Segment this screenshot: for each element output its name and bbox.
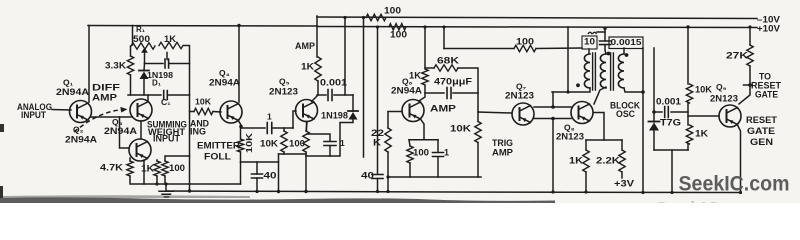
- wire 1K top lead: [156, 160, 158, 161]
- wire long vertical x643: [642, 48, 644, 193]
- svg-text:RESET: RESET: [746, 115, 777, 126]
- wire 10 box to 0015: [597, 29, 605, 33]
- resistor 22K: [387, 112, 389, 128]
- capacitor (R1 network): [145, 63, 164, 65]
- svg-text:68K: 68K: [437, 56, 460, 66]
- transistor Q2 (lower middle): [129, 139, 151, 161]
- wire Q2 emitter stem: [143, 160, 145, 184]
- wire Q7 base: [478, 112, 512, 113]
- svg-text:2N123: 2N123: [269, 86, 298, 96]
- transformer coil right: [623, 48, 625, 54]
- svg-text:10K: 10K: [195, 97, 212, 107]
- wire left bottom bus: [130, 176, 241, 184]
- wire Q8 right network: [594, 113, 605, 141]
- wire analog input: [52, 109, 71, 112]
- svg-text:2N123: 2N123: [710, 93, 738, 103]
- svg-text:100: 100: [289, 138, 305, 148]
- wire rail riser at x=317: [316, 16, 318, 57]
- capacitor C1: [128, 94, 161, 96]
- svg-text:0.0015: 0.0015: [611, 38, 643, 47]
- capacitor 10 with box: [582, 36, 597, 49]
- wire coil left top lead: [588, 49, 590, 54]
- wire top rail (-10V): [317, 17, 757, 19]
- resistor 100 (top rail 1): [366, 14, 386, 20]
- svg-text:AMP: AMP: [92, 92, 118, 103]
- wire vertical x654 top: [653, 48, 655, 112]
- wire Q5 collector slant: [312, 96, 318, 102]
- svg-text:1N198: 1N198: [321, 110, 348, 120]
- wire 100 top lead to feedback line: [165, 156, 190, 161]
- svg-text:100: 100: [390, 29, 407, 39]
- svg-text:1: 1: [340, 138, 345, 148]
- wire Q5 emitter: [306, 122, 308, 132]
- transistor Q8: [571, 102, 593, 124]
- resistor R1 500: [131, 43, 155, 49]
- wire bottom rail: [166, 191, 741, 193]
- resistor 10K (Q4 base): [194, 108, 213, 114]
- wire coil right bottom: [624, 88, 643, 92]
- wire Q6 base: [388, 111, 402, 113]
- resistor 1K (reset): [686, 125, 692, 144]
- ground: [165, 184, 167, 191]
- svg-text:4.7K: 4.7K: [100, 162, 123, 173]
- svg-text:SeekIC.com: SeekIC.com: [679, 172, 790, 196]
- svg-text:2N94A: 2N94A: [65, 135, 98, 145]
- wire rail riser to R1: [132, 26, 134, 46]
- svg-text:+3V: +3V: [614, 179, 634, 189]
- resistor 10K-A (Q4 emitter): [240, 128, 242, 139]
- resistor 3.3K: [127, 56, 133, 75]
- svg-text:2N123: 2N123: [556, 131, 584, 141]
- capacitor 0.001 (Q5): [317, 94, 326, 96]
- wire feedback right side: [184, 46, 190, 192]
- wire Q6 emitter: [421, 119, 425, 140]
- capacitor 1 (Q4 emitter): [241, 127, 265, 129]
- wire long vertical x345: [344, 18, 346, 96]
- wire Q4 emitter node: [238, 120, 241, 128]
- resistor 68K: [425, 67, 434, 69]
- svg-text:40: 40: [361, 171, 374, 181]
- svg-text:1K: 1K: [569, 156, 584, 166]
- resistor 1K (left): [154, 161, 160, 176]
- transistor Q1: [70, 101, 92, 123]
- svg-text:GEN: GEN: [750, 137, 773, 148]
- wire reset gate tick: [744, 84, 751, 86]
- svg-text:GATE: GATE: [747, 126, 775, 137]
- svg-text:Q₅: Q₅: [279, 77, 290, 87]
- wire 3.3K riser: [130, 46, 132, 56]
- svg-text:1K: 1K: [164, 34, 177, 44]
- resistor 2.2K: [621, 140, 623, 150]
- svg-text:10: 10: [584, 36, 595, 46]
- svg-text:FOLL: FOLL: [204, 152, 232, 162]
- wire 4.7K top lead: [129, 158, 131, 161]
- capacitor 0.001 (reset): [654, 111, 662, 113]
- wire Q5 base riser: [293, 111, 296, 128]
- capacitor 0.0015: [600, 41, 611, 45]
- transistor Q6: [402, 100, 424, 122]
- capacitor 1 (Q6 emitter): [409, 139, 438, 141]
- capacitor 470uuF: [425, 92, 444, 94]
- wire 27K to Q9 collector: [739, 66, 750, 104]
- svg-text:AMP: AMP: [430, 103, 457, 114]
- wire long vertical x377: [377, 27, 379, 174]
- wire 100-C drop: [305, 154, 307, 192]
- wire 3.3K bottom lead: [130, 75, 132, 95]
- wire Q3 emitter to lower transistor: [140, 121, 142, 139]
- svg-text:1K: 1K: [141, 163, 154, 174]
- wire center drop x553: [552, 92, 554, 107]
- transformer coil left: [584, 54, 590, 88]
- wire Q7-Q8 upper link: [534, 106, 571, 108]
- svg-text:0.001: 0.001: [656, 97, 681, 107]
- svg-text:D₁: D₁: [152, 79, 162, 88]
- wire tap down to lower transistor base: [120, 117, 130, 148]
- svg-text:R₁: R₁: [136, 25, 146, 34]
- svg-text:27K: 27K: [726, 51, 749, 61]
- wire left coil bottom link: [552, 88, 590, 92]
- transistor Q3 (upper middle): [130, 99, 152, 121]
- wire bottom link y150: [654, 149, 688, 151]
- wire Q1 collector: [88, 26, 90, 103]
- resistor 100 (Q6 emitter): [409, 140, 410, 146]
- svg-text:0.001: 0.001: [320, 77, 347, 87]
- wire long vertical x363: [363, 18, 365, 158]
- svg-text:1: 1: [267, 112, 272, 122]
- capacitor 1 (Q5 emitter): [307, 134, 330, 141]
- wire y177 bus: [388, 176, 481, 178]
- wire Q7-Q8 lower link: [534, 118, 571, 120]
- diode D1 1N198: [143, 64, 146, 71]
- svg-text:+10V: +10V: [757, 24, 780, 34]
- resistor 1K (Q5 collector): [315, 57, 321, 81]
- resistor 1K (Q6): [422, 69, 428, 85]
- wire Q3 collector: [147, 95, 149, 100]
- transistor Q5: [296, 100, 318, 122]
- diode T7G: [653, 112, 655, 122]
- resistor 100 (left): [162, 161, 168, 176]
- node 0.0015 boxed label: [609, 37, 643, 49]
- svg-text:AMP: AMP: [492, 147, 514, 158]
- svg-text:10K: 10K: [450, 124, 472, 134]
- svg-text:100: 100: [413, 148, 429, 158]
- svg-text:2N94A: 2N94A: [104, 126, 138, 136]
- svg-text:40: 40: [264, 171, 277, 181]
- svg-text:AMP: AMP: [295, 41, 315, 51]
- svg-text:10K: 10K: [244, 132, 254, 153]
- resistor 4.7K: [127, 161, 133, 176]
- wire R1 wiper: [141, 48, 148, 53]
- svg-text:OSC: OSC: [616, 109, 635, 119]
- svg-text:3.3K: 3.3K: [105, 60, 126, 71]
- svg-text:T7G: T7G: [660, 118, 681, 128]
- resistor 10K-B: [283, 128, 285, 131]
- transformer core right: [611, 53, 614, 90]
- wire summing arrow (dashed): [74, 110, 121, 132]
- transformer core left: [593, 53, 596, 90]
- svg-text:GATE: GATE: [755, 89, 778, 99]
- resistor 1K (Q8): [585, 140, 587, 150]
- resistor 100-C: [306, 123, 307, 131]
- svg-text:10K: 10K: [260, 138, 279, 148]
- svg-text:2N94A: 2N94A: [209, 77, 241, 87]
- transistor Q7: [512, 103, 534, 125]
- svg-text:INPUT: INPUT: [21, 110, 46, 120]
- svg-text:INPUT: INPUT: [153, 134, 181, 144]
- svg-text:SeekIC.com: SeekIC.com: [655, 198, 766, 204]
- resistor 10K (reset): [686, 84, 692, 103]
- wire +10V feed to oscillator: [567, 27, 569, 92]
- svg-text:1K: 1K: [301, 62, 315, 72]
- svg-text:C₁: C₁: [161, 97, 171, 107]
- transistor Q9: [719, 105, 741, 127]
- wire Q9 emitter drop: [738, 125, 741, 193]
- wire Q4 collector: [238, 26, 240, 103]
- svg-text:100: 100: [384, 5, 401, 15]
- wire Q9 base: [688, 115, 719, 117]
- wire Q1 emitter to Q3: [91, 116, 131, 118]
- svg-text:2N94A: 2N94A: [391, 85, 423, 95]
- transistor Q4: [220, 101, 242, 123]
- wire coil mid bottom (to Q8 collector): [594, 87, 606, 104]
- capacitor 40 (second): [372, 175, 383, 179]
- wire emitter bottom bus: [279, 153, 307, 155]
- resistor 10K (Q7 base): [477, 112, 479, 122]
- node polarity dots: [607, 52, 611, 56]
- svg-text:1K: 1K: [695, 129, 709, 139]
- svg-text:ING: ING: [190, 126, 206, 136]
- svg-text:100: 100: [169, 163, 185, 174]
- svg-text:2.2K: 2.2K: [596, 156, 621, 166]
- wire second rail (+10V): [88, 25, 317, 28]
- svg-text:Q₉: Q₉: [716, 82, 727, 92]
- resistor 1K (top): [159, 42, 183, 48]
- resistor 100 (osc): [443, 27, 445, 49]
- svg-text:EMITTER: EMITTER: [197, 141, 241, 151]
- svg-text:2N94A: 2N94A: [56, 87, 90, 97]
- svg-text:1: 1: [444, 148, 449, 158]
- svg-text:100: 100: [516, 36, 534, 46]
- wire bottom edge artifact: [0, 197, 555, 203]
- svg-text:470μμF: 470μμF: [434, 76, 473, 86]
- capacitor 40 (first): [256, 162, 258, 174]
- transformer coil middle: [600, 54, 606, 88]
- resistor 100 (top rail 2): [389, 24, 406, 30]
- diode 1N198 (second): [352, 95, 354, 111]
- resistor 27K: [749, 27, 751, 45]
- wire Q6 collector riser: [424, 27, 426, 68]
- svg-text:2N123: 2N123: [505, 90, 534, 100]
- wire vertical x688: [687, 27, 689, 84]
